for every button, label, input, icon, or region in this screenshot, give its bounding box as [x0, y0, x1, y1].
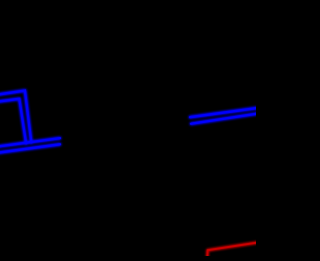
wire: left shape outer top edge and right side (blue)	[0, 91, 31, 143]
wire: left shape inner top edge and right side (blue)	[0, 99, 26, 143]
wire: baseline lower stroke (blue)	[0, 144, 60, 153]
wire: red corner line bottom right	[207, 242, 259, 258]
wire: baseline upper stroke (blue)	[0, 138, 60, 146]
wire: right double line lower stroke (blue)	[191, 113, 259, 123]
wire: right double line upper stroke (blue)	[190, 108, 259, 117]
